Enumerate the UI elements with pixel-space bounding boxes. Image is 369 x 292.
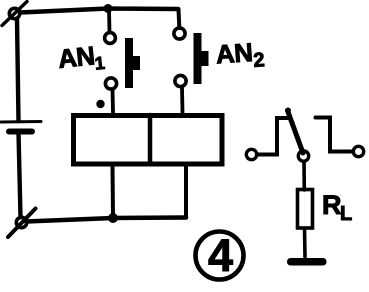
switch common terminal xyxy=(298,151,308,161)
node junction top rail xyxy=(104,4,113,13)
wire common terminal to resistor RL xyxy=(302,162,306,191)
svg-text:1: 1 xyxy=(94,53,106,74)
pushbutton AN1 bottom contact xyxy=(105,78,116,89)
svg-text:2: 2 xyxy=(253,49,266,72)
wire left vertical (battery branch) xyxy=(17,19,19,121)
label AN1 xyxy=(56,39,105,77)
svg-text:AN: AN xyxy=(215,37,254,69)
svg-text:AN: AN xyxy=(56,40,95,74)
wire relay box left to bottom rail xyxy=(111,166,116,217)
figure number 4 (circled) xyxy=(196,230,244,281)
pushbutton AN1 top contact xyxy=(105,33,116,44)
svg-text:R: R xyxy=(322,190,342,220)
switch S left terminal xyxy=(246,149,256,159)
svg-text:L: L xyxy=(340,203,352,225)
wire left terminal to upper contact xyxy=(257,118,288,155)
node junction bottom rail xyxy=(108,213,118,223)
label AN2 xyxy=(215,36,265,74)
wire top rail drop to AN2 top contact xyxy=(177,9,182,28)
switch blade (moving contact) xyxy=(285,108,303,154)
wire battery to bottom terminal xyxy=(19,133,21,217)
wire relay box right to bottom rail xyxy=(184,166,188,218)
wire resistor RL to ground xyxy=(303,228,307,257)
svg-text:4: 4 xyxy=(208,230,233,281)
terminal X1 top-left (circle with slash) xyxy=(2,2,27,26)
pushbutton AN2 top contact xyxy=(174,28,185,39)
wire right upper contact xyxy=(316,118,353,152)
pushbutton AN2 actuator bar xyxy=(194,33,209,84)
terminal X2 bottom-left (circle with slash) xyxy=(8,209,36,238)
node dot left of wire (coil mark) xyxy=(96,100,104,108)
relay K coil box (two sections) xyxy=(74,115,223,164)
wire bottom rail xyxy=(26,218,186,222)
wire AN2 bottom contact to relay box xyxy=(180,87,184,113)
ground xyxy=(287,258,327,266)
battery B1 xyxy=(1,122,41,132)
label RL xyxy=(322,190,352,225)
pushbutton AN2 bottom contact xyxy=(175,75,186,86)
wire AN1 bottom contact to relay box xyxy=(111,89,115,113)
switch right terminal xyxy=(353,146,363,156)
pushbutton AN1 actuator bar xyxy=(125,38,140,88)
wire top rail xyxy=(20,9,178,13)
wire junction to AN1 top contact xyxy=(107,9,111,32)
resistor RL xyxy=(298,190,313,229)
